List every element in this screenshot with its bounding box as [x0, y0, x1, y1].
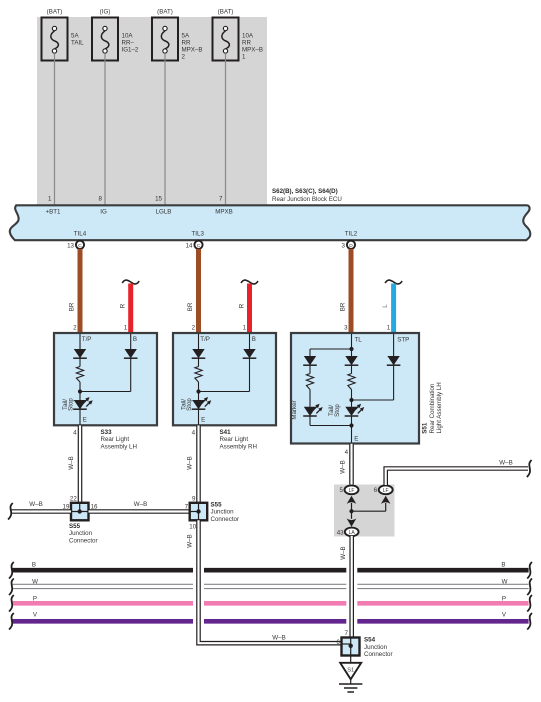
svg-text:TIL2: TIL2 [345, 230, 358, 237]
svg-text:Stop: Stop [334, 404, 341, 417]
svg-text:LF: LF [349, 488, 355, 494]
LED tail/stop bulb S33 [62, 392, 93, 426]
junction block background panel [37, 17, 267, 205]
connector pin 3 (D) [342, 241, 356, 250]
svg-text:S1: S1 [347, 667, 354, 673]
node S55 left [78, 509, 82, 513]
svg-text:S51: S51 [422, 422, 429, 434]
wire fuse F3 to junction block ECU [164, 53, 166, 204]
svg-text:Light Assembly LH: Light Assembly LH [436, 382, 443, 433]
svg-text:B: B [133, 336, 137, 343]
pin 7 label ECU terminal MPXB [219, 196, 223, 203]
svg-text:MPXB: MPXB [215, 209, 233, 216]
wire inside S55 left [71, 503, 88, 512]
LED tail/stop bulb S41 [180, 392, 211, 426]
svg-text:Rear Junction Block ECU: Rear Junction Block ECU [272, 196, 342, 203]
svg-text:Marker: Marker [291, 400, 298, 419]
svg-text:W: W [502, 579, 508, 586]
svg-text:TAIL: TAIL [71, 40, 84, 47]
svg-text:P: P [502, 596, 506, 603]
rear light assembly S33 box [54, 333, 157, 425]
resistor S33 [76, 359, 83, 392]
connector LA pin 43 [337, 528, 359, 537]
wire W-B S55 right down to S54 [187, 520, 342, 643]
svg-text:(BAT): (BAT) [218, 9, 234, 16]
svg-text:7: 7 [219, 196, 223, 203]
rear light assembly S41 box [173, 333, 276, 425]
node bottom junction S51 [310, 417, 358, 443]
svg-text:TIL4: TIL4 [74, 230, 87, 237]
svg-text:1: 1 [243, 324, 247, 331]
svg-text:Assembly RH: Assembly RH [220, 444, 257, 451]
svg-text:Rear Light: Rear Light [101, 436, 130, 443]
wire W-B between S55 connectors [89, 501, 190, 512]
svg-text:E: E [354, 436, 358, 443]
svg-text:6: 6 [336, 639, 340, 646]
svg-text:Connector: Connector [211, 516, 240, 523]
svg-text:BR: BR [68, 302, 75, 311]
label S33 [101, 429, 137, 451]
diode D2 S51 tail branch [345, 349, 359, 365]
svg-text:1: 1 [242, 54, 246, 61]
connector block background panel [334, 485, 395, 537]
svg-text:W–B: W–B [340, 460, 347, 473]
svg-text:T/P: T/P [200, 336, 210, 343]
connector LF pin 5 [340, 485, 359, 494]
svg-text:(IG): (IG) [100, 9, 111, 16]
junction connector S54 [336, 630, 392, 658]
pin 2 [192, 324, 196, 331]
svg-text:W–B: W–B [499, 459, 512, 466]
svg-text:Stop: Stop [68, 398, 75, 411]
fuse F2 10A RR&#8211;IG1&#8211;2 [92, 9, 139, 61]
pin 1 [124, 324, 128, 331]
pin 4 and wire W-B below S41 [187, 426, 199, 503]
fuse F3 5A RRMPX&#8211;B2 [152, 9, 202, 61]
svg-text:W–B: W–B [187, 534, 194, 547]
label S41 [220, 429, 257, 451]
wire fuse F2 to junction block ECU [104, 53, 106, 204]
svg-text:T/P: T/P [82, 336, 92, 343]
connector arrow LA [347, 519, 357, 527]
ground symbol [339, 679, 362, 692]
pin 4 and wire W-B below S33 [68, 426, 80, 503]
wire R (red) stop light feed [238, 280, 258, 333]
svg-text:Junction: Junction [69, 530, 93, 537]
svg-text:1: 1 [48, 196, 52, 203]
wire BR from TIL3 [187, 249, 199, 333]
diode D1 S33 tail input [73, 334, 87, 358]
svg-text:2: 2 [182, 54, 186, 61]
wire BR from TIL2 [339, 249, 351, 333]
svg-text:TL: TL [355, 336, 363, 343]
pin 15 label ECU terminal LGLB [155, 196, 162, 203]
wire LF6 to node [352, 503, 386, 511]
svg-text:W–B: W–B [134, 501, 147, 508]
wire W-B from right side to LF6 [386, 459, 532, 485]
wire R (red) stop light feed [120, 280, 140, 333]
svg-text:5: 5 [340, 487, 344, 494]
bus wire B (black) [9, 561, 532, 578]
svg-text:W: W [32, 579, 38, 586]
resistor S41 [195, 359, 202, 392]
svg-text:13: 13 [67, 242, 74, 249]
svg-text:IG1–2: IG1–2 [122, 47, 139, 54]
LED marker bulb S51 [291, 400, 323, 425]
bus wire P (pink) [9, 595, 532, 612]
svg-text:P: P [33, 596, 37, 603]
svg-text:TIL3: TIL3 [192, 230, 205, 237]
resistor marker branch S51 [306, 366, 313, 407]
svg-text:BR: BR [187, 302, 194, 311]
diode D1 S41 tail input [192, 334, 206, 358]
node LF junction [349, 509, 353, 513]
svg-text:Junction: Junction [211, 509, 235, 516]
svg-text:(BAT): (BAT) [157, 9, 173, 16]
node stop/tail junction S51 [349, 398, 393, 402]
fuse F1 5A TAIL [42, 9, 85, 61]
svg-text:D: D [349, 243, 353, 249]
svg-text:4: 4 [73, 429, 77, 436]
svg-text:5A: 5A [182, 33, 190, 40]
resistor tail branch S51 [348, 366, 355, 400]
wire S54 to ground [350, 656, 352, 664]
svg-text:W–B: W–B [187, 456, 194, 469]
svg-text:5A: 5A [71, 33, 79, 40]
svg-text:Assembly LH: Assembly LH [101, 444, 137, 451]
connector arrow LF pin6 [381, 496, 391, 504]
node junction S33 [78, 389, 131, 393]
svg-text:Rear Combination: Rear Combination [429, 383, 436, 433]
svg-text:R: R [120, 303, 127, 308]
pin 8 label ECU terminal IG [99, 196, 103, 203]
node S55 right [196, 509, 200, 513]
svg-text:LA: LA [349, 530, 356, 536]
node TL branch junction [310, 334, 354, 351]
svg-text:Junction: Junction [364, 644, 388, 651]
svg-text:R: R [238, 303, 245, 308]
pin 1 label ECU terminal +BT1 [48, 196, 52, 203]
wire BR from TIL4 [68, 249, 80, 333]
svg-text:W–B: W–B [272, 635, 285, 642]
svg-text:Connector: Connector [364, 651, 393, 658]
svg-text:B: B [501, 561, 505, 568]
Rear Junction Block ECU S62(B) S63(C) S64(D) [10, 188, 531, 240]
svg-text:LGLB: LGLB [156, 209, 172, 216]
wire W-B left to edge [8, 501, 71, 520]
svg-text:6: 6 [374, 487, 378, 494]
svg-text:Connector: Connector [69, 538, 98, 545]
diode D2 S41 stop input [243, 334, 257, 392]
svg-text:8: 8 [99, 196, 103, 203]
bus wire V (violet) [9, 611, 532, 629]
svg-text:IG: IG [100, 209, 107, 216]
svg-text:1: 1 [387, 324, 391, 331]
svg-text:+BT1: +BT1 [46, 209, 62, 216]
svg-text:MPX–B: MPX–B [242, 47, 263, 54]
diode D3 S51 stop input [387, 334, 401, 400]
svg-text:3: 3 [344, 324, 348, 331]
svg-text:S41: S41 [220, 429, 232, 436]
svg-text:4: 4 [192, 429, 196, 436]
svg-text:4: 4 [345, 449, 349, 456]
svg-text:RR–: RR– [122, 40, 135, 47]
svg-text:2: 2 [73, 324, 77, 331]
rear combination light S51 box [291, 333, 419, 444]
svg-text:S62(B), S63(C), S64(D): S62(B), S63(C), S64(D) [272, 188, 338, 195]
svg-text:MPX–B: MPX–B [182, 47, 203, 54]
svg-text:W–B: W–B [340, 546, 347, 559]
connector arrow LF pin5 [347, 496, 357, 504]
svg-text:10A: 10A [122, 33, 134, 40]
svg-text:Stop: Stop [186, 398, 193, 411]
pin 2 [73, 324, 77, 331]
svg-text:E: E [201, 417, 205, 424]
svg-text:LF: LF [383, 488, 389, 494]
wire LF5 to node [351, 503, 353, 519]
svg-text:S55: S55 [69, 523, 81, 530]
svg-text:W–B: W–B [68, 456, 75, 469]
diode D1 S51 marker branch [303, 349, 317, 365]
svg-text:B: B [252, 336, 256, 343]
svg-text:C: C [197, 243, 201, 249]
svg-text:9: 9 [192, 495, 196, 502]
node junction S41 [196, 389, 249, 393]
junction connector S55 (left) [63, 495, 99, 544]
svg-text:L: L [382, 304, 389, 308]
junction connector S55 (right) [185, 495, 239, 530]
svg-text:STP: STP [397, 336, 409, 343]
pin 3 [344, 324, 348, 331]
svg-text:B: B [32, 561, 36, 568]
label S51 Rear Combination Light Assembly LH [422, 382, 443, 433]
svg-text:E: E [83, 417, 87, 424]
connector pin 13 (C) [67, 241, 84, 250]
svg-text:15: 15 [155, 196, 162, 203]
pin 4 wire W-B below S51 [340, 444, 352, 486]
wire L (light blue) STP [382, 280, 402, 333]
svg-text:C: C [78, 243, 82, 249]
svg-text:14: 14 [186, 242, 193, 249]
svg-text:7: 7 [185, 504, 189, 511]
pin 1 [387, 324, 391, 331]
svg-text:10: 10 [189, 524, 196, 531]
svg-text:1: 1 [124, 324, 128, 331]
svg-text:3: 3 [342, 242, 346, 249]
svg-text:RR: RR [242, 40, 251, 47]
wire fuse F4 to junction block ECU [225, 53, 227, 204]
wire inside S55 right [190, 503, 199, 520]
svg-text:(BAT): (BAT) [47, 9, 63, 16]
LED tail/stop bulb S51 [328, 400, 364, 417]
svg-text:2: 2 [192, 324, 196, 331]
wire W-B LA to S54 [340, 536, 352, 638]
diode D2 S33 stop input [124, 334, 138, 392]
connector pin 14 (C) [186, 241, 203, 250]
wire fuse F1 to junction block ECU [54, 53, 56, 204]
pin 1 [243, 324, 247, 331]
svg-text:22: 22 [70, 495, 77, 502]
connector LF pin 6 [374, 485, 393, 494]
svg-text:Rear Light: Rear Light [220, 436, 249, 443]
ground point S1 [340, 663, 361, 679]
svg-text:S33: S33 [101, 429, 113, 436]
fuse F4 10A RRMPX&#8211;B1 [213, 9, 263, 61]
svg-text:S54: S54 [364, 637, 376, 644]
svg-text:10A: 10A [242, 33, 254, 40]
svg-text:7: 7 [345, 630, 349, 637]
svg-text:43: 43 [337, 529, 344, 536]
svg-text:RR: RR [182, 40, 191, 47]
svg-text:BR: BR [339, 302, 346, 311]
svg-text:S55: S55 [211, 501, 223, 508]
svg-text:W–B: W–B [29, 501, 42, 508]
bus wire W (white) [9, 579, 532, 596]
